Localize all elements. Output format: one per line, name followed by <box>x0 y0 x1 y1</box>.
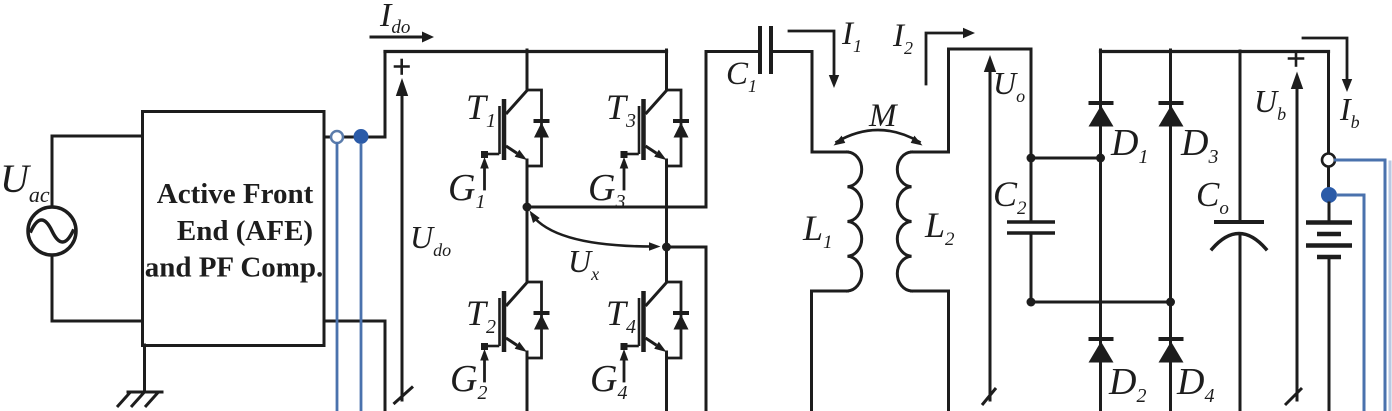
label T4 <box>606 293 636 338</box>
inductor L1 (primary winding) <box>848 152 862 291</box>
label D2 <box>1108 361 1146 407</box>
label Co <box>1196 175 1229 219</box>
wire right leg upper <box>665 50 668 90</box>
label D4 <box>1176 361 1214 407</box>
label I_b <box>1339 91 1360 132</box>
wire D1-D2 leg <box>1099 50 1102 411</box>
wire L2 bottom lead <box>912 291 949 411</box>
diode D2 <box>1089 339 1114 363</box>
battery cells <box>1306 223 1352 258</box>
wire blue from open circle <box>1336 160 1386 411</box>
current arrow I_b <box>1303 38 1352 92</box>
inductor L2 (secondary winding) <box>897 152 911 291</box>
node battery blue dot <box>1321 187 1337 203</box>
label U_o <box>993 65 1025 106</box>
label G2 <box>450 358 487 404</box>
wire node A to D1 leg <box>1031 157 1101 160</box>
node battery open circle <box>1322 154 1335 167</box>
wire top output rail <box>1101 50 1329 53</box>
AC source label U_ac <box>0 156 50 207</box>
wire left leg upper <box>526 50 529 90</box>
diode D3 <box>1159 103 1184 127</box>
wire L1 bottom lead <box>812 291 848 411</box>
ground <box>117 345 162 407</box>
label D3 <box>1180 122 1218 168</box>
diode D4 <box>1159 339 1184 363</box>
label U_do <box>410 219 451 260</box>
wire battery bottom <box>1328 259 1331 411</box>
svg-text:Active Front: Active Front <box>157 178 314 210</box>
wire left leg middle <box>526 160 529 282</box>
mutual coupling arrow M <box>834 130 923 146</box>
wire blue from blue dot <box>1338 195 1365 411</box>
voltage arrow U_o with slash <box>982 55 996 405</box>
wire left leg lower <box>526 352 529 411</box>
capacitor C1 <box>760 26 771 74</box>
wire right leg middle <box>665 160 668 282</box>
capacitor C2 <box>1007 158 1055 302</box>
wire node B to D3-D4 midpoint <box>1031 301 1171 304</box>
label U_x <box>568 243 599 284</box>
svg-text:and PF Comp.: and PF Comp. <box>145 252 324 284</box>
wire AFE output minus <box>324 321 385 411</box>
capacitor Co (output, polarized) <box>1212 51 1266 411</box>
wire left midpoint to C1 <box>527 52 757 208</box>
node B junction <box>1027 298 1036 307</box>
label M <box>868 98 898 134</box>
diode D1 <box>1089 103 1114 127</box>
node D1-D2 midpoint <box>1096 154 1105 163</box>
label C2 <box>993 174 1027 219</box>
label T1 <box>466 87 496 132</box>
transistor T2 (IGBT with diode) <box>480 282 549 381</box>
current arrow I_1 <box>789 31 839 88</box>
node bridge right midpoint <box>662 243 671 252</box>
voltage arrow U_x (curved, double-headed) <box>530 211 661 251</box>
svg-text:End (AFE): End (AFE) <box>177 215 313 247</box>
label T2 <box>466 293 496 338</box>
wire D3-D4 leg <box>1169 50 1172 411</box>
current arrow I_2 <box>926 28 975 84</box>
wire blue sense line 2 <box>360 145 363 411</box>
label L2 <box>924 205 955 250</box>
wire right midpoint down <box>667 247 707 411</box>
transistor T4 (IGBT with diode) <box>620 282 689 381</box>
label I_do <box>379 0 410 38</box>
label L1 <box>802 208 833 253</box>
label G4 <box>590 358 627 404</box>
label I_1 <box>841 16 862 56</box>
AC source U_ac (sine source) <box>28 136 142 321</box>
wire circle to dot <box>1327 167 1330 187</box>
node AFE open circle (blue) <box>331 131 343 143</box>
label T3 <box>606 87 636 132</box>
label G3 <box>588 167 625 213</box>
node bridge left midpoint <box>523 203 532 212</box>
AFE block (Active Front End) <box>143 112 325 346</box>
voltage arrow U_do with plus and slash <box>394 60 414 404</box>
wire blue sense line 1 <box>336 144 339 411</box>
wire battery branch upper <box>1327 52 1330 154</box>
node A junction <box>1027 154 1036 163</box>
wire dot to battery <box>1328 203 1331 220</box>
wire blue slide edge <box>1389 162 1392 411</box>
wire AFE output plus to DC rail <box>324 52 385 138</box>
label U_b <box>1254 83 1286 124</box>
wire top DC rail <box>385 50 667 53</box>
node AFE blue dot <box>354 129 369 144</box>
label C1 <box>726 56 757 96</box>
label I_2 <box>892 18 913 58</box>
label D1 <box>1110 122 1148 168</box>
svg-text:M: M <box>868 98 898 134</box>
node D3-D4 midpoint <box>1166 298 1175 307</box>
transistor T3 (IGBT with diode) <box>620 90 689 189</box>
transistor T1 (IGBT with diode) <box>480 90 549 189</box>
voltage arrow U_b with plus and slash <box>1285 52 1303 406</box>
wire right leg lower <box>665 352 668 411</box>
label G1 <box>448 167 485 213</box>
current arrow I_do <box>371 32 434 43</box>
wire C1 to primary <box>774 52 848 153</box>
wire L2 top lead to node A <box>912 49 1032 158</box>
